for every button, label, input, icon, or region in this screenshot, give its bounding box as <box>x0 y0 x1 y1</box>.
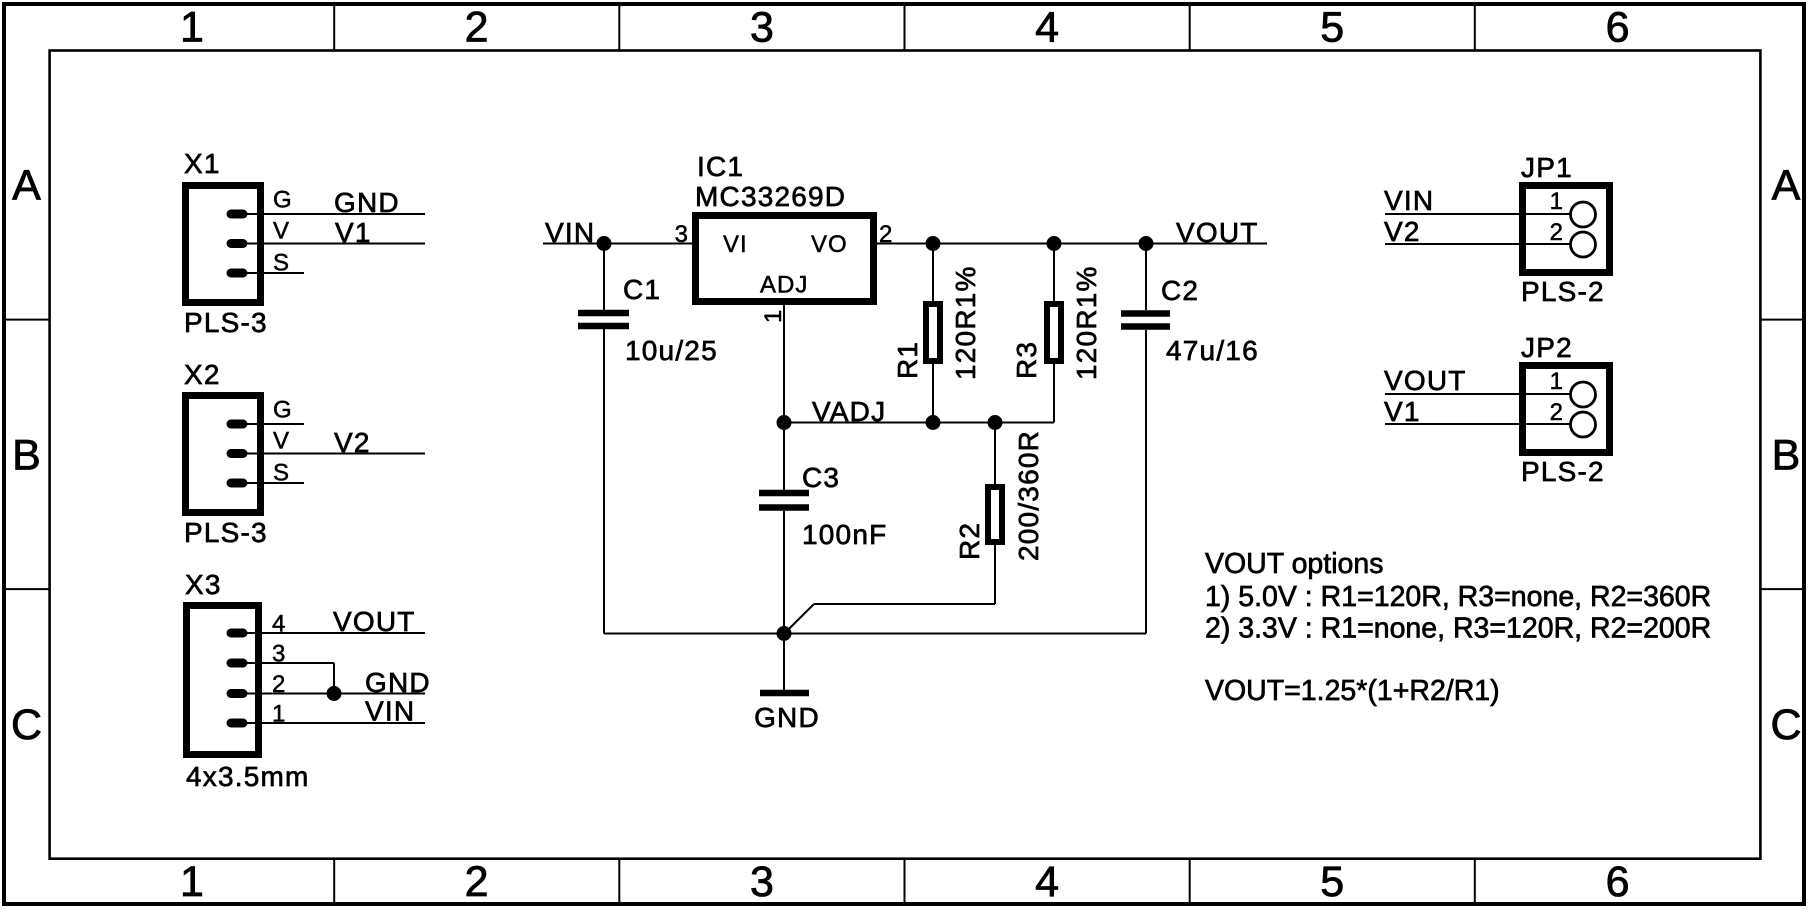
connector X1 <box>184 148 293 338</box>
wire stub X2 pin G <box>244 423 304 425</box>
svg-text:X2: X2 <box>184 359 221 390</box>
svg-text:V: V <box>273 218 290 245</box>
svg-text:5: 5 <box>1320 858 1344 906</box>
svg-text:10u/25: 10u/25 <box>625 335 718 366</box>
junction X3 GND <box>327 686 342 701</box>
junction VIN / C1 <box>597 236 612 251</box>
svg-text:R2: R2 <box>954 522 985 560</box>
svg-text:2: 2 <box>1550 219 1564 246</box>
svg-text:4x3.5mm: 4x3.5mm <box>186 761 310 792</box>
wire net VOUT from X3 pin 4 <box>244 606 425 637</box>
connector X2 <box>184 359 293 548</box>
svg-text:VADJ: VADJ <box>812 396 886 427</box>
svg-text:PLS-2: PLS-2 <box>1521 456 1605 487</box>
wire R2 bottom to GND bus <box>785 604 995 633</box>
svg-text:PLS-3: PLS-3 <box>184 517 268 548</box>
resistor R1 120R1% <box>892 244 981 423</box>
wire X3 pin 3 to GND junction <box>244 663 334 694</box>
svg-text:GND: GND <box>334 187 400 218</box>
svg-text:6: 6 <box>1606 858 1630 906</box>
svg-text:1: 1 <box>760 309 787 323</box>
svg-text:PLS-3: PLS-3 <box>184 307 268 338</box>
svg-text:5: 5 <box>1320 4 1344 52</box>
svg-text:4: 4 <box>1035 858 1059 906</box>
svg-text:VOUT options: VOUT options <box>1205 548 1383 580</box>
svg-text:R1: R1 <box>892 341 923 379</box>
svg-text:VO: VO <box>811 231 848 258</box>
note VOUT options <box>1205 548 1711 707</box>
wire net VOUT from IC1 pin 2 <box>877 217 1267 248</box>
svg-text:V1: V1 <box>335 217 372 248</box>
svg-text:2) 3.3V : R1=none, R3=120R, R2: 2) 3.3V : R1=none, R3=120R, R2=200R <box>1205 613 1711 645</box>
svg-text:VOUT: VOUT <box>1176 217 1259 248</box>
wire net V2 from X2 pin V <box>244 427 425 458</box>
svg-text:G: G <box>273 397 293 424</box>
svg-text:120R1%: 120R1% <box>950 265 981 380</box>
wire net VIN to JP1 pin 1 <box>1384 185 1571 216</box>
junction VOUT / R3 <box>1047 236 1062 251</box>
svg-text:120R1%: 120R1% <box>1071 265 1102 380</box>
svg-text:6: 6 <box>1606 4 1630 52</box>
connector JP1 <box>1521 152 1610 307</box>
svg-text:B: B <box>1772 432 1801 480</box>
capacitor C3 100nF <box>759 423 887 634</box>
capacitor C1 10u/25 <box>578 244 718 634</box>
svg-text:VOUT=1.25*(1+R2/R1): VOUT=1.25*(1+R2/R1) <box>1205 675 1500 707</box>
svg-text:3: 3 <box>750 858 774 906</box>
wire net VADJ <box>784 396 1054 427</box>
svg-text:A: A <box>1772 162 1801 210</box>
svg-text:ADJ: ADJ <box>760 272 808 299</box>
svg-text:R3: R3 <box>1011 341 1042 379</box>
wire net VIN from X3 pin 1 <box>244 696 425 727</box>
svg-text:100nF: 100nF <box>802 519 887 550</box>
svg-text:VI: VI <box>723 231 748 258</box>
svg-text:X1: X1 <box>184 148 221 179</box>
svg-text:A: A <box>12 162 41 210</box>
wire net V2 to JP1 pin 2 <box>1384 216 1571 247</box>
wire stub X1 pin S <box>244 272 304 274</box>
svg-text:2: 2 <box>465 4 489 52</box>
wire GND bus <box>604 633 1146 635</box>
svg-text:C3: C3 <box>802 462 840 493</box>
junction VADJ / C3 <box>777 415 792 430</box>
op-amp/regulator IC1 MC33269D <box>675 151 894 323</box>
junction VOUT / C2 <box>1139 236 1154 251</box>
wire net GND from X1 pin G <box>244 187 425 218</box>
wire net V1 from X1 pin V <box>244 217 425 248</box>
svg-text:47u/16: 47u/16 <box>1166 335 1259 366</box>
junction VOUT / R1 <box>926 236 941 251</box>
svg-text:C2: C2 <box>1161 275 1199 306</box>
wire net GND from X3 pin 2 <box>244 667 431 698</box>
svg-text:C: C <box>1770 701 1801 749</box>
junction VADJ / R2 <box>988 415 1003 430</box>
junction GND bus <box>777 626 792 641</box>
svg-text:1: 1 <box>180 4 204 52</box>
resistor R3 120R1% <box>1011 244 1102 423</box>
svg-text:1: 1 <box>180 858 204 906</box>
svg-text:JP1: JP1 <box>1521 152 1573 183</box>
svg-text:C1: C1 <box>623 274 661 305</box>
svg-text:VIN: VIN <box>365 696 415 727</box>
svg-text:200/360R: 200/360R <box>1013 430 1044 561</box>
svg-text:1: 1 <box>1550 188 1564 215</box>
connector X3 <box>185 569 310 792</box>
junction VADJ / R1 <box>926 415 941 430</box>
svg-text:G: G <box>273 187 293 214</box>
svg-text:1) 5.0V : R1=120R, R3=none, R2: 1) 5.0V : R1=120R, R3=none, R2=360R <box>1205 581 1711 613</box>
svg-text:JP2: JP2 <box>1521 332 1573 363</box>
svg-text:V2: V2 <box>1384 216 1421 247</box>
svg-text:V2: V2 <box>334 427 371 458</box>
svg-text:2: 2 <box>465 858 489 906</box>
ground symbol GND <box>754 634 820 734</box>
svg-text:X3: X3 <box>185 569 222 600</box>
svg-text:PLS-2: PLS-2 <box>1521 276 1605 307</box>
svg-text:V1: V1 <box>1384 396 1421 427</box>
svg-text:B: B <box>12 432 41 480</box>
svg-text:2: 2 <box>1550 399 1564 426</box>
svg-text:3: 3 <box>750 4 774 52</box>
wire net V1 to JP2 pin 2 <box>1384 396 1571 427</box>
wire stub X2 pin S <box>244 482 304 484</box>
svg-text:GND: GND <box>365 667 431 698</box>
svg-text:V: V <box>273 428 290 455</box>
svg-text:GND: GND <box>754 702 820 733</box>
svg-text:VIN: VIN <box>545 217 595 248</box>
svg-text:VOUT: VOUT <box>333 606 416 637</box>
wire net VIN into IC1 pin 3 <box>543 217 692 248</box>
svg-text:VIN: VIN <box>1384 185 1434 216</box>
capacitor C2 47u/16 <box>1121 244 1259 634</box>
resistor R2 200/360R <box>954 423 1044 605</box>
svg-text:C: C <box>11 701 42 749</box>
svg-text:4: 4 <box>1035 4 1059 52</box>
wire net VOUT to JP2 pin 1 <box>1384 365 1571 396</box>
connector JP2 <box>1521 332 1610 487</box>
svg-text:VOUT: VOUT <box>1384 365 1467 396</box>
svg-text:IC1: IC1 <box>697 151 744 182</box>
svg-text:MC33269D: MC33269D <box>695 181 846 212</box>
wire IC1 pin 1 down to VADJ <box>783 305 785 423</box>
svg-text:1: 1 <box>1550 368 1564 395</box>
